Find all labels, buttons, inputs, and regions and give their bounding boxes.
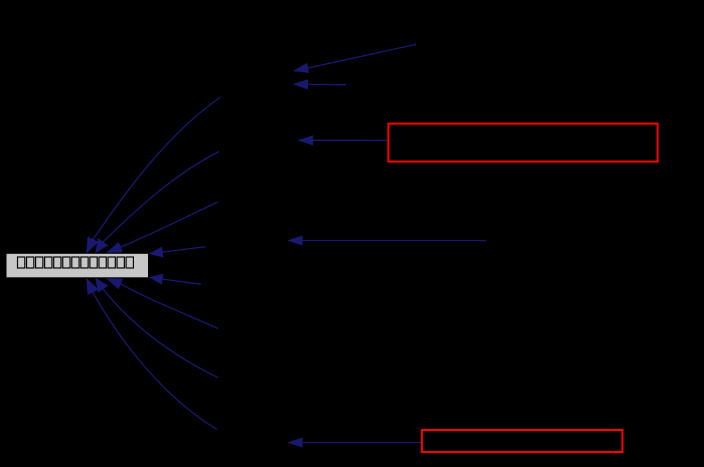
edge c8 [87,279,218,430]
edge c4 [150,247,206,257]
edge s4 [288,236,486,245]
edge c7 [96,278,219,378]
node L (central function, grey box with tofu label) [6,253,149,277]
edge s5 [288,438,421,447]
edge c5 [150,274,202,284]
edge s3 [299,136,388,145]
edge s2 [293,80,346,89]
edge c2 [96,152,220,254]
node R2 (red bordered caller) [422,430,623,452]
edge c1 [87,97,221,253]
edge c6 [107,278,219,328]
node R1 (red bordered caller, 2-line) [388,124,657,162]
edge c3 [107,202,218,253]
edge s1 [294,44,417,72]
